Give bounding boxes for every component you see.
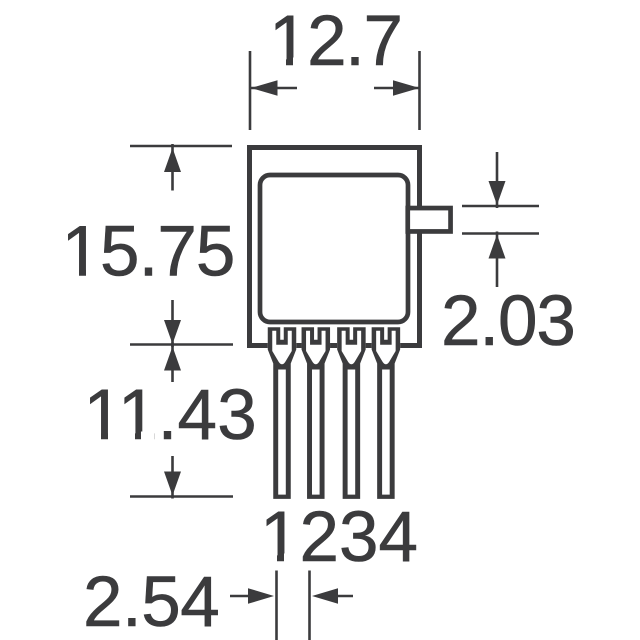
svg-text:11.43: 11.43 bbox=[84, 376, 257, 455]
svg-text:2.54: 2.54 bbox=[83, 563, 219, 640]
svg-text:1234: 1234 bbox=[260, 498, 418, 577]
svg-text:2.03: 2.03 bbox=[441, 282, 575, 361]
svg-text:12.7: 12.7 bbox=[269, 2, 402, 81]
svg-text:15.75: 15.75 bbox=[62, 213, 235, 292]
